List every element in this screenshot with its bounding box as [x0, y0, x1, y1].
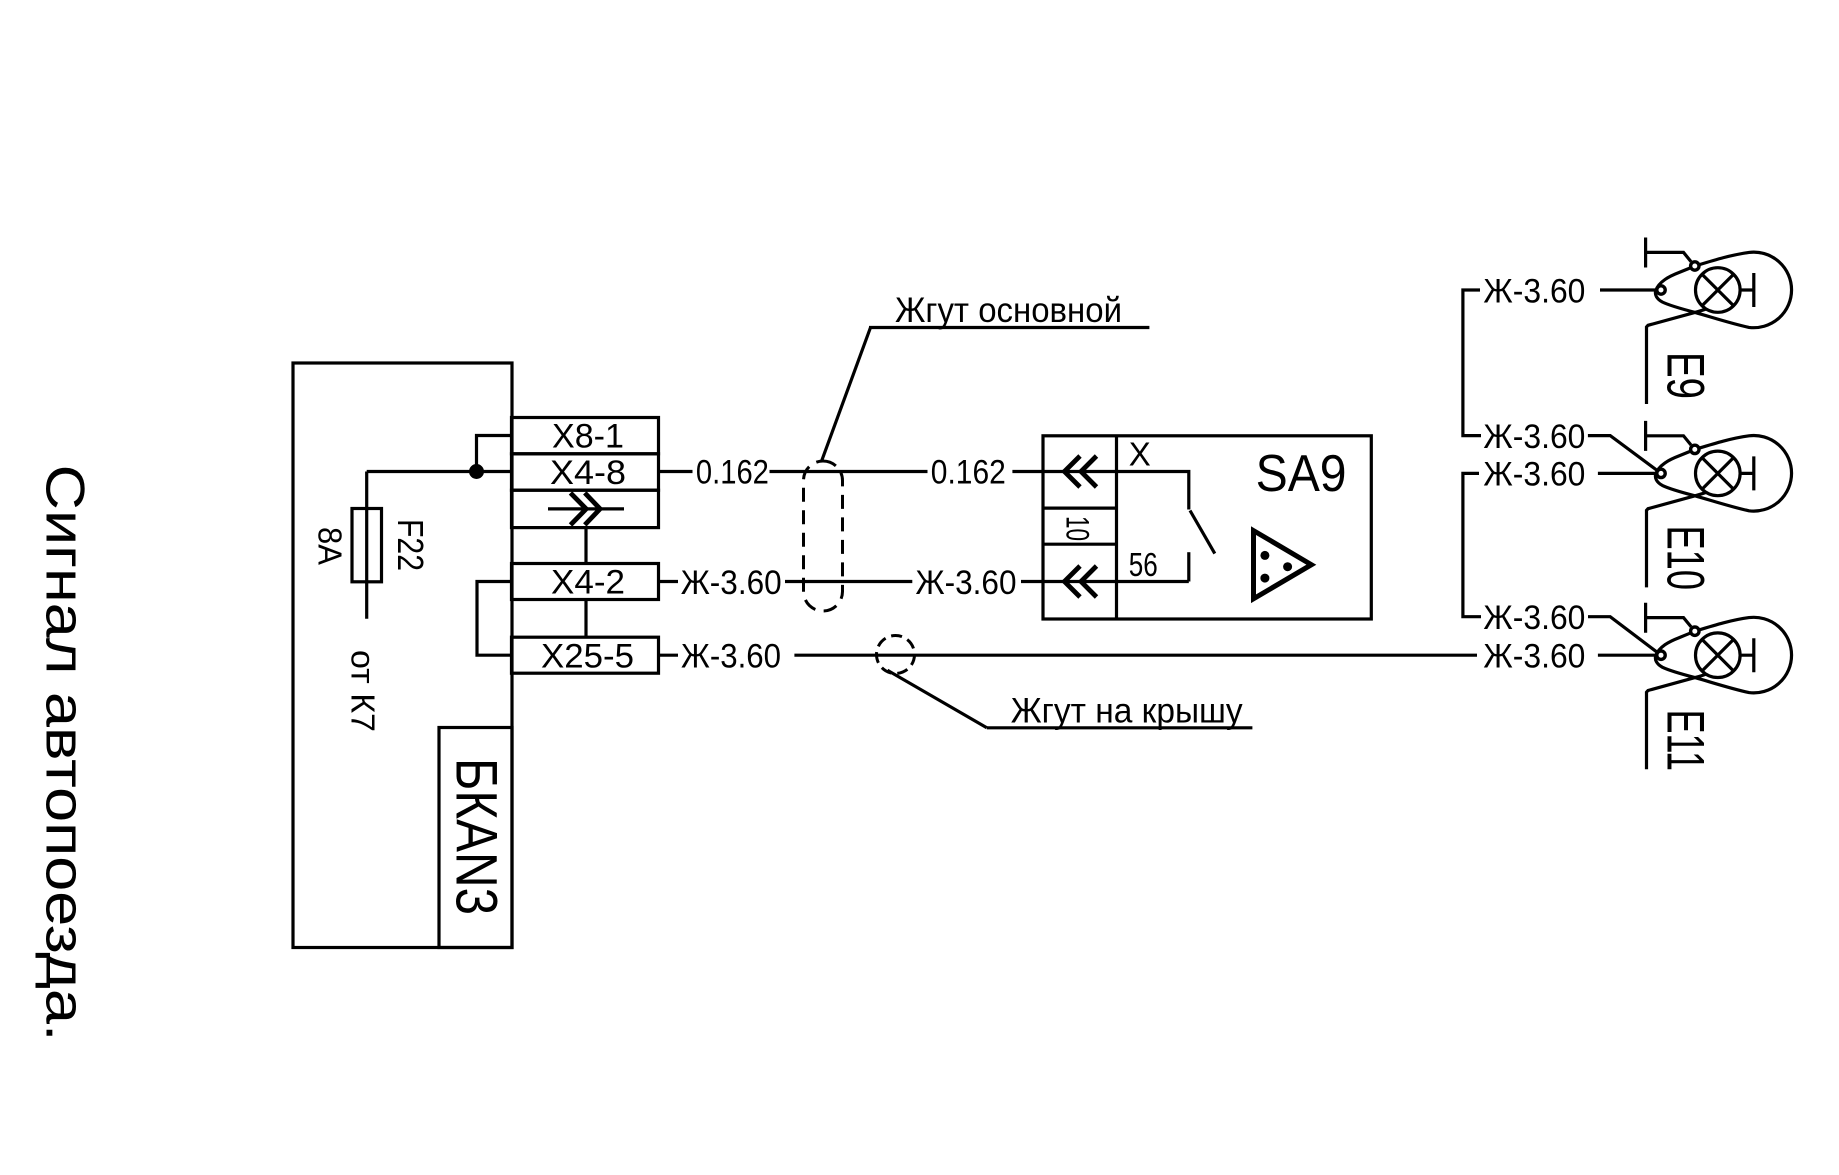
fuse F22 lead wire (vertical through fuse) — [365, 472, 368, 619]
svg-text:Ж-3.60: Ж-3.60 — [916, 564, 1017, 602]
SA9 pin 56 contact stub — [1187, 552, 1190, 581]
link wire X4-2 to X25-5 — [584, 600, 587, 638]
connector pin X25-5 box — [512, 637, 659, 673]
svg-text:E11: E11 — [1656, 710, 1715, 772]
connector transition box (male arrow) — [512, 490, 659, 527]
wire label to lamp E9 terminal — [1600, 288, 1655, 291]
bracket wire E10 feed to E11 branch — [1463, 473, 1481, 616]
svg-text:X: X — [1129, 435, 1151, 472]
svg-text:SA9: SA9 — [1256, 445, 1347, 503]
svg-text:0.162: 0.162 — [931, 454, 1006, 492]
lamp E11 — [1646, 603, 1792, 770]
callout leader for Жгут на крышу — [888, 670, 987, 728]
wire into SA9 pin X row — [1012, 470, 1116, 473]
wire X25-5 to label Ж-3.60 — [659, 654, 679, 657]
wire Ж-3.60 through harness — [785, 580, 912, 583]
svg-text:Ж-3.60: Ж-3.60 — [1483, 456, 1585, 494]
svg-text:Ж-3.60: Ж-3.60 — [1483, 272, 1585, 310]
callout underline Жгут основной — [869, 326, 1149, 329]
block name box БКАN3 — [439, 728, 512, 948]
wire from E11 upper label to terminal (diagonal) — [1588, 617, 1656, 652]
svg-text:Ж-3.60: Ж-3.60 — [1483, 638, 1585, 676]
link wire arrow box to X4-2 — [584, 528, 587, 564]
wire E11 lower label to lamp terminal — [1598, 654, 1656, 657]
lamp E9 — [1646, 238, 1792, 405]
SA9 connector cell line lower — [1043, 543, 1117, 546]
wire from fuse F22 to connector X4-8 row — [367, 470, 512, 473]
svg-text:56: 56 — [1129, 546, 1158, 583]
wire 0.162 through harness to second label — [770, 470, 928, 473]
svg-text:БКАN3: БКАN3 — [444, 758, 509, 915]
SA9 internal conductor pin X — [1117, 472, 1189, 510]
long roof-harness wire to lamp E11 — [794, 654, 1477, 657]
wire X4-2 to label Ж-3.60 — [659, 580, 679, 583]
bracket wire E9 feed to E10 branch — [1463, 290, 1481, 436]
wire into SA9 pin 56 row — [1021, 580, 1117, 583]
wire step from junction to X8-1 row — [477, 436, 512, 472]
svg-text:X8-1: X8-1 — [552, 418, 624, 456]
block БКАN3 outline — [293, 363, 512, 948]
SA9 internal conductor pin 56 — [1117, 580, 1189, 583]
callout leader for Жгут основной — [822, 328, 871, 462]
svg-text:E9: E9 — [1656, 352, 1715, 399]
svg-text:8А: 8А — [312, 527, 349, 565]
roof harness marker (dashed circle) — [877, 636, 915, 674]
fuse F22 body — [352, 509, 382, 582]
lamp E10 — [1646, 421, 1792, 588]
wire X4-8 to label 0.162 — [659, 470, 693, 473]
callout underline Жгут на крышу — [987, 726, 1253, 729]
connector pin X4-8 box — [512, 454, 659, 490]
svg-text:Ж-3.60: Ж-3.60 — [681, 638, 781, 676]
svg-text:F22: F22 — [390, 519, 431, 571]
female connector chevrons pin 56 — [1064, 566, 1080, 597]
wire step linking X4-2 and X25-5 rows — [477, 582, 512, 656]
connector pin X4-2 box — [512, 564, 659, 600]
SA9 switch blade (open) — [1190, 511, 1215, 554]
svg-text:0.162: 0.162 — [696, 454, 769, 492]
SA9 function symbol (triangle) — [1254, 531, 1312, 599]
svg-text:Ж-3.60: Ж-3.60 — [1483, 418, 1585, 456]
SA9 connector cell line upper — [1043, 507, 1117, 510]
svg-text:X4-8: X4-8 — [550, 454, 626, 492]
svg-text:Жгут на крышу: Жгут на крышу — [1011, 692, 1243, 731]
svg-text:E10: E10 — [1656, 526, 1715, 591]
harness boundary (dashed stadium) — [804, 461, 843, 611]
switch SA9 outline — [1043, 436, 1371, 619]
female connector chevrons pin X — [1064, 456, 1080, 487]
SA9 symbol dots — [1260, 551, 1269, 560]
svg-text:X4-2: X4-2 — [551, 564, 625, 602]
male connector arrow symbol — [548, 507, 624, 510]
SA9 connector column divider — [1115, 436, 1118, 619]
wire E10 lower label to lamp terminal — [1598, 472, 1656, 475]
svg-text:X25-5: X25-5 — [541, 637, 634, 675]
svg-text:Жгут основной: Жгут основной — [895, 291, 1122, 330]
svg-text:от К7: от К7 — [345, 650, 382, 732]
svg-text:Ж-3.60: Ж-3.60 — [1483, 599, 1585, 637]
connector pin X8-1 box — [512, 418, 659, 454]
svg-text:Ж-3.60: Ж-3.60 — [681, 564, 782, 602]
wire from E10 upper label to terminal (diagonal) — [1588, 436, 1657, 470]
svg-text:10: 10 — [1060, 516, 1096, 541]
svg-text:Сигнал автопоезда.: Сигнал автопоезда. — [35, 465, 97, 1042]
junction node at X4-8 wire — [469, 464, 484, 479]
